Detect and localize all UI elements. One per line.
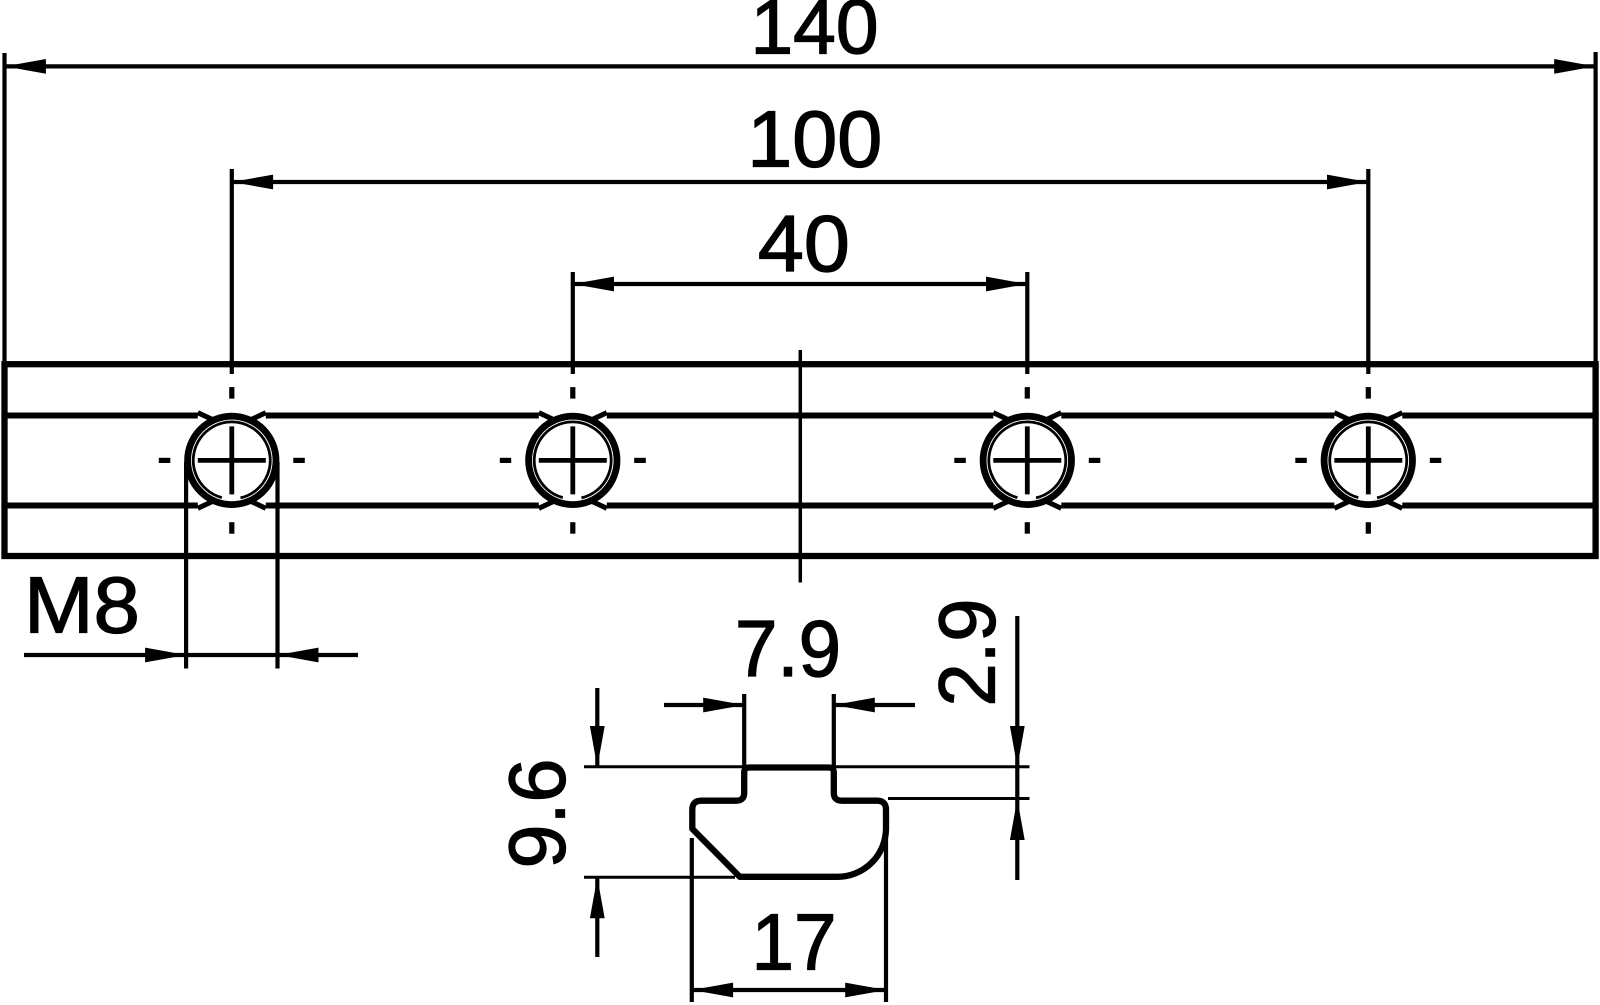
svg-text:7.9: 7.9	[735, 604, 841, 693]
rail outline	[5, 364, 1596, 556]
svg-text:M8: M8	[24, 561, 140, 650]
part centre line	[799, 350, 803, 583]
dimension 17	[692, 838, 886, 1002]
threaded hole M8 #3	[954, 387, 1100, 534]
svg-text:17: 17	[752, 898, 837, 987]
centre line hole 1 (100 dim extension)	[230, 169, 234, 374]
dimension 9.6	[493, 688, 736, 957]
dimension M8 tangent extension lines	[184, 462, 188, 669]
svg-text:100: 100	[747, 95, 882, 184]
svg-text:40: 40	[758, 199, 850, 288]
section: top surface thin line	[584, 765, 1030, 768]
section: T-nut profile outline	[692, 768, 886, 877]
svg-text:2.9: 2.9	[923, 599, 1012, 707]
centre line hole 3 (40 dim extension)	[1025, 272, 1029, 374]
dimension 40	[573, 199, 1028, 291]
centre line hole 4 (100 dim extension)	[1366, 169, 1370, 374]
slot edge line upper	[5, 413, 198, 419]
dimension 2.9	[888, 599, 1030, 881]
threaded hole M8 #2	[500, 387, 646, 534]
centre line hole 2 (40 dim extension)	[571, 272, 575, 374]
dimension 140	[5, 0, 1596, 361]
slot edge line lower	[5, 503, 198, 509]
dimension M8	[24, 561, 358, 663]
threaded hole M8 #4	[1295, 387, 1441, 534]
svg-text:9.6: 9.6	[493, 759, 582, 869]
dimension 100	[232, 95, 1369, 190]
svg-text:140: 140	[751, 0, 879, 71]
dimension 7.9	[664, 604, 915, 766]
threaded hole M8 #1	[159, 387, 305, 534]
